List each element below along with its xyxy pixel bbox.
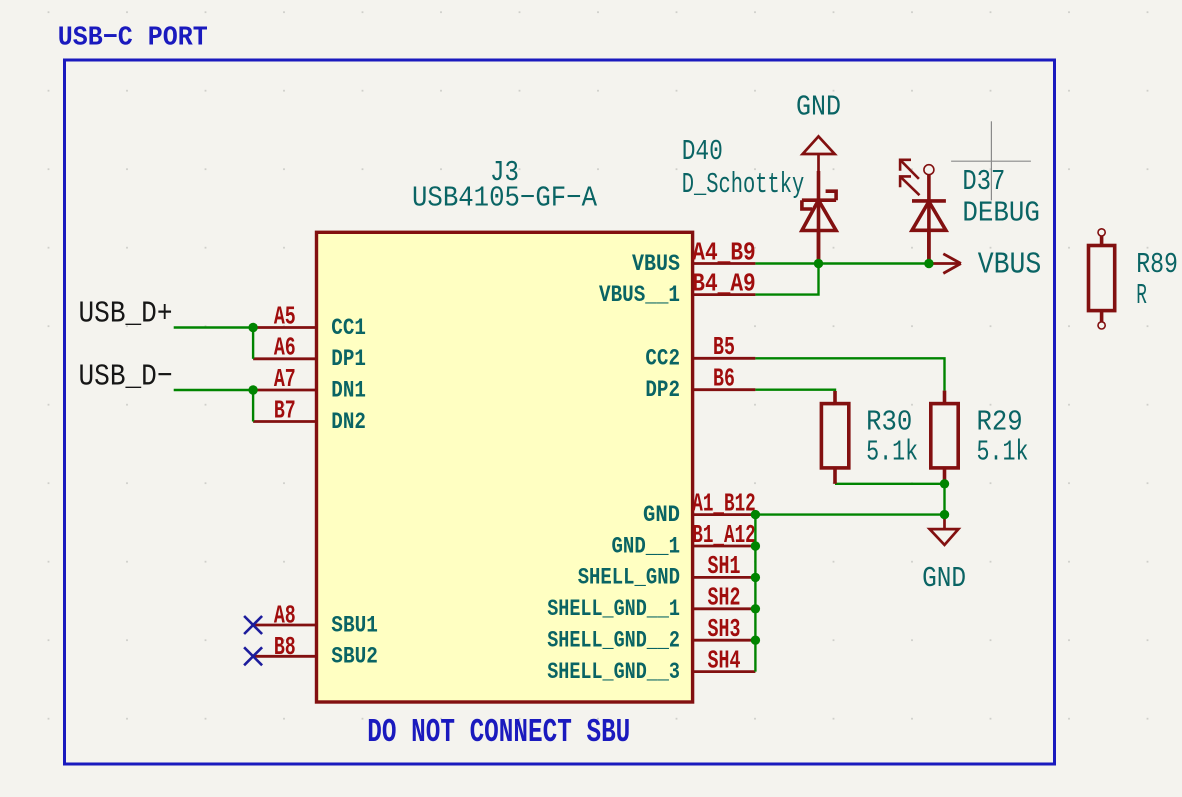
svg-text:VBUS: VBUS: [978, 247, 1042, 282]
svg-text:B7: B7: [274, 395, 296, 425]
wire R30 bottom: [835, 483, 945, 485]
svg-text:SHELL_GND: SHELL_GND: [578, 565, 680, 591]
cursor crosshair: [951, 121, 1031, 200]
svg-text:B1_A12: B1_A12: [692, 520, 756, 550]
svg-text:A6: A6: [274, 333, 296, 363]
junction VBUS at D37: [924, 259, 933, 268]
svg-text:GND: GND: [922, 562, 966, 595]
wires green: [174, 264, 945, 672]
svg-text:B8: B8: [274, 632, 296, 662]
svg-text:VBUS: VBUS: [632, 251, 680, 277]
svg-text:SH3: SH3: [708, 614, 741, 644]
junction SH1: [751, 573, 760, 582]
pin A8 SBU1: [253, 624, 316, 627]
svg-text:A8: A8: [274, 601, 296, 631]
pin B1_A12 GND__1: [693, 545, 756, 548]
wire GND bus vertical: [754, 515, 756, 672]
wire GND bus horizontal: [755, 513, 944, 515]
junction SH2: [751, 604, 760, 613]
svg-text:A4_B9: A4_B9: [692, 237, 756, 267]
svg-text:SH1: SH1: [708, 551, 741, 581]
svg-text:A5: A5: [274, 301, 296, 331]
svg-text:VBUS__1: VBUS__1: [599, 282, 680, 308]
wire A5 to A6: [252, 328, 254, 359]
pin A1_B12 GND: [693, 513, 756, 516]
power symbol GND top: [803, 136, 835, 171]
wire USB_D+ to A5: [174, 326, 253, 328]
svg-text:USB−C PORT: USB−C PORT: [58, 24, 208, 54]
svg-text:USB4105−GF−A: USB4105−GF−A: [412, 182, 598, 215]
resistor R29: [931, 391, 958, 484]
junction GND net at R29: [940, 510, 949, 519]
junction VBUS at D40: [814, 259, 823, 268]
global label VBUS arrow: [929, 254, 961, 274]
junction USB_D+/A5: [248, 323, 257, 332]
pin numbers: [274, 237, 756, 675]
svg-text:B4_A9: B4_A9: [692, 268, 756, 298]
svg-text:R29: R29: [977, 406, 1023, 439]
svg-text:R: R: [1136, 279, 1147, 312]
pin A4_B9 VBUS: [693, 262, 756, 265]
pin A6 DP1: [253, 357, 316, 360]
svg-text:GND__1: GND__1: [612, 533, 681, 559]
svg-text:SH2: SH2: [708, 583, 741, 613]
svg-text:5.1k: 5.1k: [866, 435, 918, 468]
wire VBUS__1 to VBUS: [755, 264, 818, 295]
svg-text:DN2: DN2: [331, 409, 366, 435]
svg-text:SBU2: SBU2: [331, 644, 378, 670]
svg-text:CC1: CC1: [331, 315, 366, 341]
wire CC2 to R29: [755, 358, 944, 390]
svg-text:CC2: CC2: [645, 346, 680, 372]
junction GND pin A1_B12: [751, 510, 760, 519]
pin A7 DN1: [253, 389, 316, 392]
svg-text:A1_B12: A1_B12: [692, 488, 756, 518]
svg-text:R89: R89: [1136, 248, 1178, 281]
wire DP2 to R30: [755, 390, 835, 391]
junction R30/R29 bottom: [940, 479, 949, 488]
svg-text:USB_D+: USB_D+: [79, 297, 173, 332]
svg-text:DP1: DP1: [331, 346, 366, 372]
junction USB_D-/A7: [248, 385, 257, 394]
svg-text:5.1k: 5.1k: [977, 435, 1029, 468]
resistor R89: [1089, 229, 1115, 329]
resistor R30: [821, 391, 848, 484]
D37 LED arrows: [900, 160, 919, 195]
svg-text:SHELL_GND__3: SHELL_GND__3: [547, 659, 680, 685]
pin B4_A9 VBUS__1: [693, 293, 756, 296]
svg-text:USB_D−: USB_D−: [79, 360, 173, 395]
svg-text:A7: A7: [274, 364, 296, 394]
pin B7 DN2: [253, 420, 316, 423]
svg-text:GND: GND: [643, 502, 680, 528]
pin SH4 SHELL_GND__3: [693, 670, 756, 673]
svg-text:SH4: SH4: [708, 645, 741, 675]
svg-text:R30: R30: [866, 406, 912, 439]
sheet border: [65, 60, 1055, 764]
wire VBUS net: [755, 262, 929, 264]
LED D37: [912, 165, 946, 264]
wire R29 bottom to GND: [943, 484, 945, 515]
svg-text:SHELL_GND__1: SHELL_GND__1: [547, 596, 680, 622]
svg-text:SHELL_GND__2: SHELL_GND__2: [547, 627, 680, 653]
pin SH2 SHELL_GND__1: [693, 607, 756, 610]
svg-text:D_Schottky: D_Schottky: [682, 168, 805, 201]
svg-text:D37: D37: [962, 165, 1005, 198]
power symbol GND bottom: [930, 515, 959, 545]
svg-text:B6: B6: [713, 364, 735, 394]
pin B6 DP2: [693, 388, 756, 391]
svg-text:B5: B5: [713, 332, 735, 362]
junction B1_A12: [751, 541, 760, 550]
diode D40 schottky: [802, 171, 836, 264]
no-connect X SBU2: [244, 647, 262, 665]
svg-text:DEBUG: DEBUG: [962, 197, 1040, 230]
pin names: [331, 251, 680, 685]
pin SH1 SHELL_GND: [693, 576, 756, 579]
svg-text:DO NOT CONNECT SBU: DO NOT CONNECT SBU: [367, 714, 630, 751]
svg-text:GND: GND: [796, 91, 841, 124]
right pin stubs: [693, 264, 756, 672]
pin SH3 SHELL_GND__2: [693, 639, 756, 642]
pin B8 SBU2: [253, 655, 316, 658]
junction SH3: [751, 636, 760, 645]
pin A5 CC1: [253, 326, 316, 329]
no-connect X SBU1: [244, 616, 262, 665]
svg-text:D40: D40: [682, 135, 723, 168]
svg-text:DP2: DP2: [645, 377, 680, 403]
wire A7 to B7: [252, 390, 254, 422]
connector J3 USB4105-GF-A body: [317, 232, 693, 702]
wire USB_D- to A7: [174, 389, 253, 391]
left pin stubs: [253, 328, 316, 657]
svg-text:DN1: DN1: [331, 377, 366, 403]
pin B5 CC2: [693, 357, 756, 360]
svg-text:SBU1: SBU1: [331, 612, 378, 638]
